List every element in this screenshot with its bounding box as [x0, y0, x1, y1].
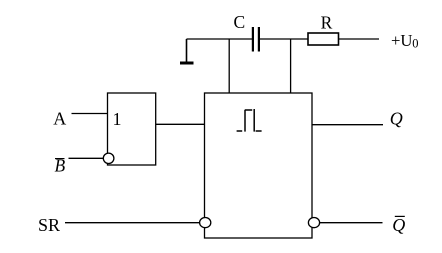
gate U1 box	[108, 93, 156, 165]
wire gate output to monostable	[156, 123, 205, 125]
ground	[180, 39, 194, 63]
wire output Q	[312, 124, 383, 126]
wire input SR	[65, 222, 200, 224]
wire input B	[69, 157, 104, 159]
svg-text:Q: Q	[392, 215, 405, 235]
capacitor C plates	[253, 27, 259, 52]
svg-text:R: R	[321, 12, 333, 32]
inversion bubble Q-bar output	[308, 218, 319, 228]
monostable box	[205, 93, 313, 238]
label B-bar	[55, 155, 66, 175]
wire output Q-bar	[320, 222, 383, 224]
svg-text:0: 0	[412, 36, 418, 50]
svg-text:SR: SR	[38, 215, 60, 235]
svg-text:B: B	[55, 155, 66, 175]
svg-text:C: C	[234, 12, 246, 32]
svg-text:A: A	[53, 109, 66, 129]
pulse symbol	[237, 109, 262, 132]
wire resistor to +U0	[339, 38, 380, 40]
wire drop left (top rail to monostable top)	[228, 39, 230, 93]
wire ground to capacitor	[187, 38, 253, 40]
wire drop right (top rail to monostable top)	[290, 39, 292, 93]
svg-text:Q: Q	[390, 109, 403, 129]
label Q-bar	[392, 215, 405, 235]
wire capacitor to resistor	[260, 38, 308, 40]
svg-text:+U: +U	[391, 31, 413, 50]
inversion bubble SR input	[200, 218, 211, 228]
resistor R body	[308, 33, 339, 45]
wire input A	[72, 113, 108, 115]
gate U1 inversion bubble (B input)	[103, 153, 114, 163]
svg-text:1: 1	[113, 109, 122, 129]
